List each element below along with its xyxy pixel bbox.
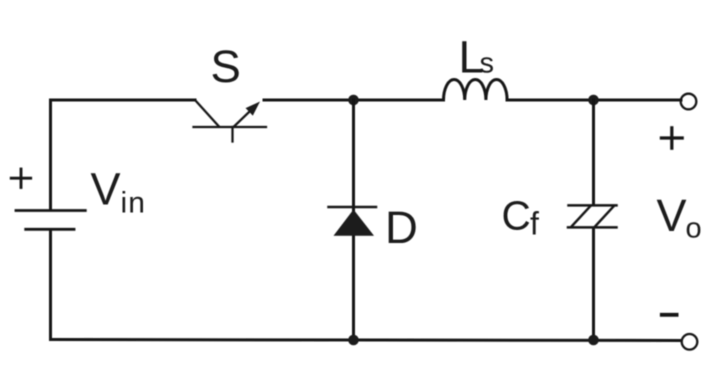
wire bottom rail: [51, 340, 682, 341]
node junction bottom-right dot: [588, 335, 599, 346]
capacitor Cf branch wire bottom: [592, 229, 595, 341]
wire left vertical (source bottom): [49, 231, 52, 340]
output minus sign: [662, 313, 677, 317]
svg-text:S: S: [211, 41, 241, 92]
svg-text:s: s: [480, 48, 495, 80]
wire left vertical (source top): [49, 100, 52, 210]
label Vin: [91, 164, 147, 220]
label Cf: [502, 193, 540, 242]
diode D branch wire: [352, 100, 355, 340]
svg-text:V: V: [657, 190, 687, 241]
terminal output bottom circle: [682, 334, 698, 350]
capacitor Cf symbol: [568, 205, 617, 227]
transistor switch S: [194, 100, 267, 142]
svg-text:o: o: [686, 213, 702, 245]
output plus sign: [661, 128, 682, 148]
inductor Ls: [444, 79, 508, 100]
svg-text:D: D: [385, 202, 418, 253]
wire inductor to output: [507, 99, 681, 102]
battery Vin plates: [16, 211, 85, 230]
capacitor Cf branch wire top: [592, 100, 595, 205]
svg-text:C: C: [502, 193, 531, 239]
node junction bottom-left dot: [348, 335, 359, 346]
label Vo: [657, 190, 702, 245]
node junction top-right dot: [588, 95, 599, 106]
wire transistor to inductor: [264, 99, 444, 102]
label Ls: [459, 32, 495, 83]
node junction top-left dot: [348, 95, 359, 106]
svg-text:f: f: [530, 206, 539, 242]
battery plus sign: [11, 169, 31, 188]
terminal output top circle: [681, 94, 697, 110]
wire top-left segment: [51, 99, 196, 102]
svg-text:V: V: [91, 164, 121, 215]
svg-text:in: in: [121, 187, 147, 220]
diode D symbol: [329, 207, 377, 236]
